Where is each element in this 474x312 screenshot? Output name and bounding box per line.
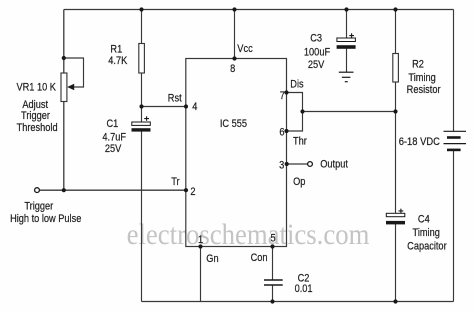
svg-text:25V: 25V — [105, 143, 122, 155]
potentiometer VR1 — [61, 58, 84, 102]
svg-text:4.7uF: 4.7uF — [102, 132, 126, 144]
junction trigger wire / VR1 — [62, 188, 66, 192]
junction pin 3 at IC edge — [285, 162, 289, 166]
junction pin 7 at IC edge — [284, 90, 288, 94]
svg-text:25V: 25V — [308, 59, 325, 71]
svg-text:R2: R2 — [412, 59, 424, 71]
wire pin 3 to output terminal — [287, 163, 308, 165]
svg-text:IC 555: IC 555 — [220, 119, 248, 131]
svg-text:4.7K: 4.7K — [108, 55, 127, 67]
junction pin 4 at IC edge — [184, 104, 188, 108]
svg-text:6: 6 — [279, 127, 284, 139]
wire pin 1 Gn to ground rail — [200, 247, 202, 302]
svg-text:100uF: 100uF — [304, 47, 330, 59]
wire VR1 bottom to trigger node — [63, 102, 65, 191]
junction R1 top rail — [139, 7, 143, 11]
svg-text:6-18 VDC: 6-18 VDC — [399, 136, 440, 148]
wire C2 to ground rail — [272, 285, 274, 302]
svg-text:C1: C1 — [107, 118, 119, 130]
ground symbol below C3 — [339, 72, 354, 82]
junction pin 2 at IC edge — [184, 188, 188, 192]
wire pin 4 Rst — [142, 106, 187, 108]
wire R1 to C1 — [141, 73, 143, 123]
wire C3 branch from top rail — [346, 10, 348, 39]
junction discharge stub to R2 wire — [300, 109, 304, 113]
wire left rail from top rail to VR1 — [63, 10, 65, 74]
svg-text:Op: Op — [293, 177, 306, 189]
capacitor C4 — [386, 209, 405, 225]
junction C4 ground rail — [393, 299, 397, 303]
terminal Output — [308, 162, 313, 167]
svg-text:Thr: Thr — [293, 136, 307, 148]
svg-text:Capacitor: Capacitor — [407, 241, 447, 253]
wire trigger input to pin 2 — [40, 189, 187, 191]
svg-text:2: 2 — [190, 187, 195, 199]
svg-text:Rst: Rst — [168, 93, 182, 105]
svg-text:C4: C4 — [418, 214, 430, 226]
svg-text:Threshold: Threshold — [17, 122, 58, 134]
wire pin7-pin6 discharge stub — [287, 93, 303, 132]
junction pin 6 at IC edge — [284, 129, 288, 133]
wire bottom ground rail — [142, 301, 454, 303]
battery BT1 — [444, 131, 467, 150]
svg-text:Timing: Timing — [413, 227, 440, 239]
junction C3 top rail — [344, 7, 348, 11]
capacitor C1 — [132, 116, 151, 131]
resistor R1 — [139, 44, 145, 74]
svg-text:Output: Output — [320, 159, 348, 171]
junction C2 ground rail — [270, 299, 274, 303]
wire pin 5 Con to C2 — [272, 247, 274, 280]
svg-text:8: 8 — [230, 63, 235, 75]
junction R2 top rail — [393, 7, 397, 11]
svg-text:C3: C3 — [310, 33, 322, 45]
terminal Trigger input — [35, 188, 40, 193]
svg-text:Timing: Timing — [408, 73, 435, 85]
svg-text:R1: R1 — [110, 44, 122, 56]
wire Vcc pin 8 branch — [234, 10, 236, 59]
svg-text:7: 7 — [280, 90, 285, 102]
IC U1 555 body — [186, 59, 287, 247]
junction Vcc top rail — [232, 7, 236, 11]
junction pin 5 at IC bottom — [270, 244, 274, 248]
svg-text:Gn: Gn — [206, 253, 218, 265]
svg-text:0.01: 0.01 — [295, 283, 313, 295]
capacitor C2 — [264, 280, 283, 285]
svg-text:VR1 10 K: VR1 10 K — [16, 82, 56, 94]
svg-text:Dis: Dis — [290, 79, 303, 91]
svg-text:4: 4 — [192, 101, 197, 113]
wire C3 to ground symbol — [346, 49, 348, 73]
wire discharge node to R2 — [303, 111, 396, 113]
capacitor C3 — [337, 33, 356, 49]
resistor R2 — [393, 54, 399, 83]
svg-text:High to low Pulse: High to low Pulse — [10, 213, 82, 225]
svg-text:5: 5 — [270, 233, 275, 245]
wire right rail to battery plus — [453, 10, 455, 132]
junction Rst tap on R1/C1 line — [139, 104, 143, 108]
svg-text:3: 3 — [279, 160, 284, 172]
junction VR1 wiper tap — [62, 56, 66, 60]
svg-text:Resistor: Resistor — [407, 84, 441, 96]
wire R2 to C4 — [395, 82, 397, 214]
svg-text:Trigger: Trigger — [21, 110, 50, 122]
junction pin 8 at IC top — [232, 56, 236, 60]
wire C4 to ground rail — [395, 224, 397, 302]
junction R2 bottom node — [393, 109, 397, 113]
svg-text:Trigger: Trigger — [24, 201, 53, 213]
svg-text:Con: Con — [251, 252, 268, 264]
wire C1 to ground rail — [141, 132, 143, 302]
svg-text:Tr: Tr — [171, 176, 180, 188]
svg-text:1: 1 — [198, 235, 203, 247]
wire top power rail — [64, 9, 454, 11]
junction pin 1 at IC bottom — [198, 244, 202, 248]
wire R2 branch from top rail — [395, 10, 397, 54]
wire R1 branch from top rail — [141, 10, 143, 44]
svg-text:Vcc: Vcc — [237, 43, 252, 55]
wire battery minus to ground rail — [453, 150, 455, 302]
